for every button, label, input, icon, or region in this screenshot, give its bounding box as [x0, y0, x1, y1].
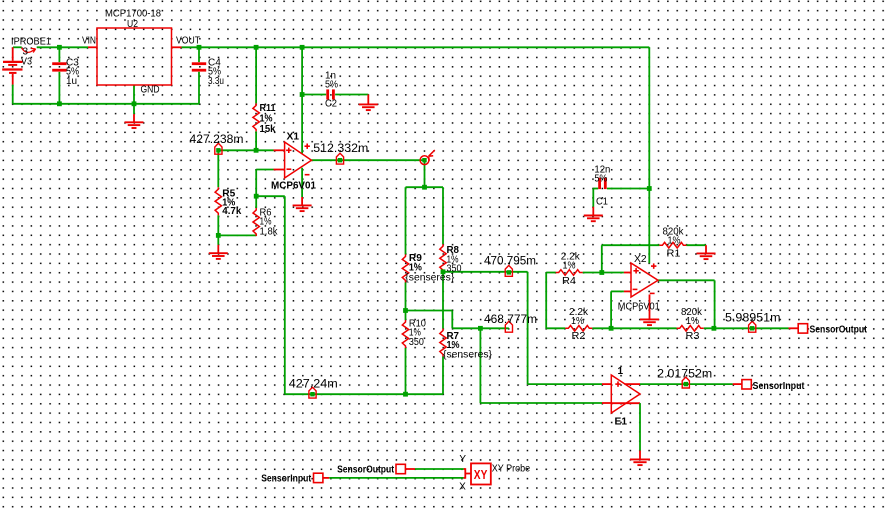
svg-text:MCP6V01: MCP6V01 — [618, 301, 660, 312]
svg-text:XY Probe: XY Probe — [492, 463, 531, 474]
svg-text:15k: 15k — [260, 124, 276, 135]
svg-text:1u: 1u — [66, 76, 77, 87]
svg-text:E1: E1 — [615, 416, 628, 427]
svg-text:427.24m: 427.24m — [289, 376, 338, 390]
svg-text:MCP6V01: MCP6V01 — [271, 180, 316, 191]
svg-text:2.01752m: 2.01752m — [657, 367, 712, 381]
svg-text:R1: R1 — [667, 248, 681, 259]
svg-text:C2: C2 — [325, 98, 337, 109]
svg-text:VOUT: VOUT — [176, 35, 200, 46]
svg-text:R11: R11 — [260, 103, 276, 114]
svg-text:XY: XY — [474, 468, 488, 482]
svg-text:C1: C1 — [596, 196, 608, 207]
svg-text:350: 350 — [447, 263, 462, 274]
svg-text:GND: GND — [141, 84, 160, 95]
svg-text:SensorOutput: SensorOutput — [337, 463, 394, 475]
svg-text:R2: R2 — [572, 331, 586, 342]
svg-text:Y: Y — [459, 454, 466, 465]
svg-text:R3: R3 — [686, 331, 700, 342]
svg-text:{senseres}: {senseres} — [443, 349, 493, 360]
svg-text:IPROBE1: IPROBE1 — [11, 36, 51, 47]
svg-text:512.332m: 512.332m — [313, 141, 368, 155]
svg-text:SensorOutput: SensorOutput — [810, 324, 868, 336]
svg-text:X: X — [459, 482, 466, 493]
svg-text:V3: V3 — [21, 56, 32, 67]
svg-text:VIN: VIN — [82, 35, 96, 46]
svg-text:1%: 1% — [260, 113, 273, 124]
svg-text:3.3u: 3.3u — [208, 76, 224, 87]
svg-text:U2: U2 — [127, 19, 138, 30]
svg-text:X1: X1 — [287, 132, 300, 143]
svg-text:5%: 5% — [325, 80, 338, 91]
svg-text:X2: X2 — [634, 254, 647, 265]
svg-text:427.238m: 427.238m — [190, 132, 244, 146]
svg-text:470.795m: 470.795m — [484, 253, 536, 267]
svg-text:MCP1700-18: MCP1700-18 — [105, 8, 161, 19]
svg-text:1%: 1% — [686, 316, 699, 327]
svg-text:5.98951m: 5.98951m — [725, 310, 781, 324]
svg-text:1%: 1% — [563, 261, 576, 272]
svg-text:5%: 5% — [594, 174, 607, 185]
svg-text:SensorInput: SensorInput — [261, 472, 311, 484]
svg-text:468.777m: 468.777m — [484, 312, 537, 326]
svg-text:1%: 1% — [571, 316, 584, 327]
svg-text:350: 350 — [409, 337, 424, 348]
svg-text:1%: 1% — [668, 236, 681, 247]
svg-text:1.8k: 1.8k — [260, 226, 279, 237]
svg-text:SensorInput: SensorInput — [753, 380, 805, 392]
svg-text:R4: R4 — [562, 276, 576, 287]
svg-text:1: 1 — [618, 366, 624, 377]
svg-text:4.7k: 4.7k — [222, 206, 241, 217]
